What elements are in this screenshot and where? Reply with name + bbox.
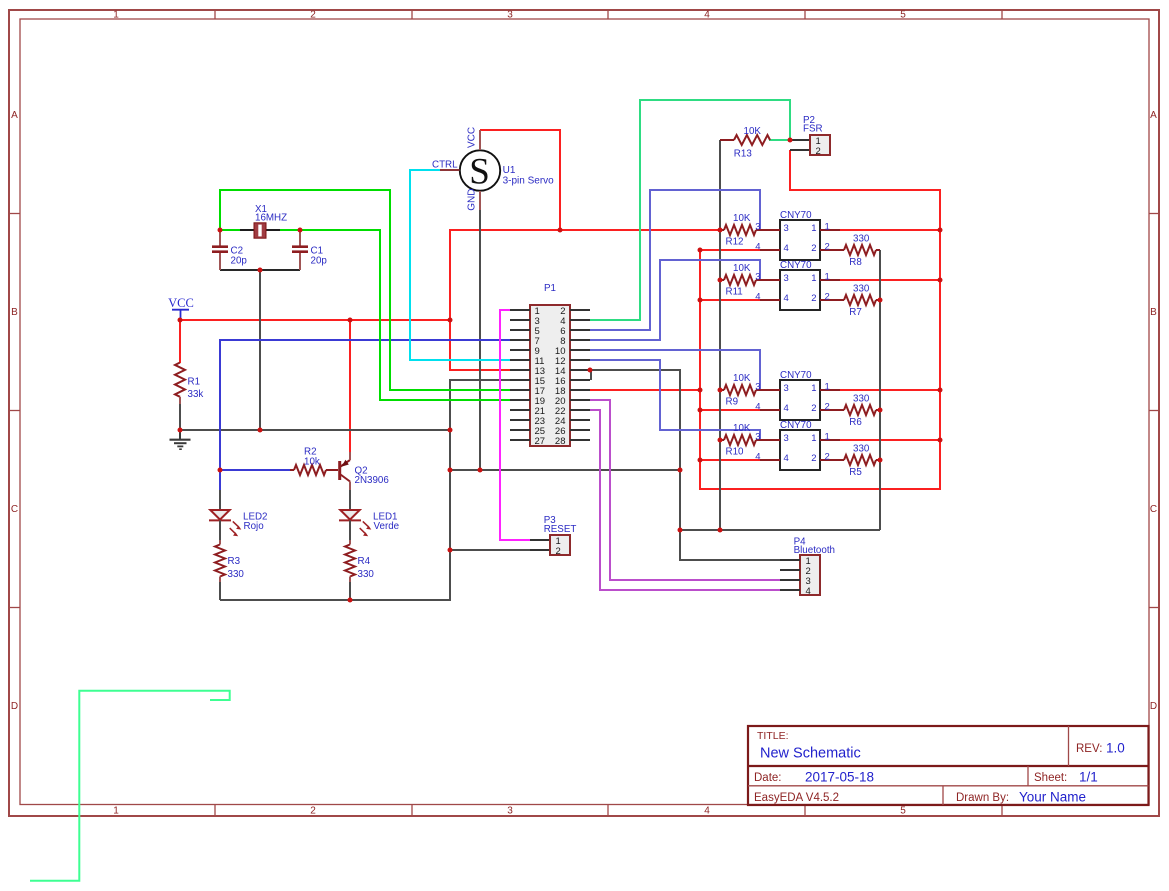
svg-text:1: 1 <box>811 433 816 444</box>
wire P1 pin12 blue to CNY70-4 pin3 <box>590 360 760 440</box>
svg-text:3: 3 <box>784 273 789 284</box>
svg-text:4: 4 <box>784 453 789 464</box>
svg-text:10K: 10K <box>733 213 751 224</box>
wire x=720 sensor common <box>719 140 721 530</box>
capacitor C1 <box>292 231 327 270</box>
svg-text:3: 3 <box>755 432 760 443</box>
svg-text:330: 330 <box>853 394 870 405</box>
svg-text:2: 2 <box>310 806 316 817</box>
wire crystal caps midpoint to ground rail <box>220 269 300 271</box>
capacitor C2 <box>212 231 247 270</box>
wire spring-green P1 pin4 to P2/FSR <box>590 100 790 320</box>
resistor R9 <box>720 373 760 408</box>
ground symbol <box>170 430 191 449</box>
svg-text:2: 2 <box>811 403 816 414</box>
connector P1 <box>510 283 590 447</box>
svg-text:3: 3 <box>507 10 513 21</box>
svg-text:P1: P1 <box>544 283 556 294</box>
wire y=530 link <box>680 529 880 531</box>
wire P1 pin10 blue to CNY70-3 pin3 <box>590 350 760 390</box>
resistor R13 <box>720 126 770 159</box>
wire green crystal right to P1 pin19 <box>300 230 510 400</box>
wire green crystal left node stub <box>220 229 240 231</box>
wire servo VCC to rail <box>480 130 560 230</box>
svg-text:3: 3 <box>755 222 760 233</box>
svg-text:3: 3 <box>507 806 513 817</box>
svg-text:2: 2 <box>811 293 816 304</box>
wire P1 pin15 / x=450 vertical / LED bottom rail <box>220 380 510 600</box>
svg-text:A: A <box>1150 110 1157 121</box>
svg-text:CNY70: CNY70 <box>780 210 812 221</box>
svg-text:1.0: 1.0 <box>1106 741 1125 756</box>
svg-text:B: B <box>11 307 18 318</box>
svg-text:Verde: Verde <box>374 521 400 532</box>
wire CNY70-2 pin4 <box>700 299 760 301</box>
wire green crystal right node stub <box>280 229 300 231</box>
wire ground rail y=430 <box>180 429 450 431</box>
svg-text:Date:: Date: <box>754 772 782 784</box>
resistor R1 <box>175 320 203 430</box>
svg-text:4: 4 <box>704 10 710 21</box>
svg-text:5: 5 <box>900 806 906 817</box>
svg-text:CTRL: CTRL <box>432 159 458 170</box>
op-amp/servo symbol U1 <box>432 127 554 211</box>
wire spring-green R13 right lead <box>769 139 790 141</box>
svg-text:2: 2 <box>811 243 816 254</box>
svg-text:Bluetooth: Bluetooth <box>794 545 835 556</box>
wire CNY70-2 pin1 to x=940 <box>840 279 940 281</box>
free green polyline bottom-left <box>30 691 230 881</box>
svg-text:FSR: FSR <box>803 124 823 135</box>
svg-text:2: 2 <box>816 146 821 157</box>
connector P4 Bluetooth <box>780 537 835 597</box>
wire CNY70-3 pin4 <box>700 409 760 411</box>
svg-text:Drawn By:: Drawn By: <box>956 792 1009 804</box>
svg-text:B: B <box>1150 307 1157 318</box>
svg-text:2: 2 <box>811 453 816 464</box>
wire P1 pin8 blue to CNY70-2 pin3 <box>590 260 760 340</box>
svg-text:1: 1 <box>825 222 830 233</box>
resistor R11 <box>720 263 760 298</box>
svg-text:D: D <box>11 701 18 712</box>
svg-text:CNY70: CNY70 <box>780 370 812 381</box>
svg-text:330: 330 <box>853 234 870 245</box>
svg-text:3: 3 <box>784 433 789 444</box>
resistor R4 <box>345 540 374 600</box>
svg-text:330: 330 <box>853 444 870 455</box>
svg-text:4: 4 <box>755 452 760 463</box>
wire blue to R2 <box>220 469 290 471</box>
wire magenta P1 pin1 to P3 pin1 <box>500 310 530 540</box>
svg-text:1: 1 <box>113 10 119 21</box>
svg-text:R1: R1 <box>188 377 201 388</box>
svg-text:10K: 10K <box>733 373 751 384</box>
svg-text:3: 3 <box>784 383 789 394</box>
resistor R2 <box>290 447 338 476</box>
IC CNY70 #2 <box>755 260 840 310</box>
svg-text:REV:: REV: <box>1076 743 1102 755</box>
svg-text:R13: R13 <box>734 148 753 159</box>
svg-text:CNY70: CNY70 <box>780 260 812 271</box>
svg-text:D: D <box>1150 701 1157 712</box>
svg-text:2: 2 <box>825 452 830 463</box>
svg-text:2: 2 <box>310 10 316 21</box>
svg-text:A: A <box>11 110 18 121</box>
svg-text:10K: 10K <box>733 423 751 434</box>
IC CNY70 #3 <box>755 370 840 420</box>
svg-text:1/1: 1/1 <box>1079 770 1098 785</box>
svg-text:330: 330 <box>358 569 375 580</box>
svg-text:10K: 10K <box>744 126 762 137</box>
wire red x=450: pin13 to crystal-row rail y=230 <box>450 230 720 370</box>
svg-text:Your Name: Your Name <box>1019 790 1086 805</box>
svg-text:330: 330 <box>228 569 245 580</box>
svg-text:2: 2 <box>825 242 830 253</box>
resistor R8 <box>840 234 880 268</box>
LED LED1 (Verde) <box>339 490 400 540</box>
resistor R5 <box>840 444 880 478</box>
wire servo GND down x=480 <box>479 210 481 470</box>
wire P1 pin18 red <box>590 389 700 391</box>
wire cyan servo CTRL to P1 pin11 <box>410 170 510 360</box>
resistor R6 <box>840 394 880 428</box>
svg-text:1: 1 <box>825 272 830 283</box>
svg-text:R7: R7 <box>849 307 862 318</box>
transistor Q2 <box>340 452 390 491</box>
svg-text:S: S <box>469 152 490 193</box>
resistor R3 <box>215 540 244 600</box>
svg-text:TITLE:: TITLE: <box>757 730 789 742</box>
svg-text:VCC: VCC <box>168 296 194 310</box>
connector P3 RESET <box>530 515 576 557</box>
title block <box>748 726 1149 805</box>
wire green crystal left to P1 pin17 <box>220 190 510 390</box>
svg-text:VCC: VCC <box>467 127 478 148</box>
wire x=880 resistor return <box>879 250 881 530</box>
wire P3 pin2 <box>450 549 530 551</box>
wire P1 pin6 blue to CNY70-1 pin3 <box>590 190 760 330</box>
svg-text:R9: R9 <box>726 397 739 408</box>
svg-text:1: 1 <box>811 273 816 284</box>
svg-text:2: 2 <box>825 292 830 303</box>
svg-text:Sheet:: Sheet: <box>1034 772 1067 784</box>
svg-text:R8: R8 <box>849 257 862 268</box>
svg-text:4: 4 <box>755 292 760 303</box>
svg-text:4: 4 <box>755 402 760 413</box>
svg-text:3: 3 <box>755 382 760 393</box>
wire violet P1 pin22 to P4 pin4 <box>590 410 780 590</box>
svg-text:3: 3 <box>784 223 789 234</box>
svg-text:GND: GND <box>466 189 477 211</box>
svg-text:33k: 33k <box>188 389 204 400</box>
svg-text:4: 4 <box>784 403 789 414</box>
svg-text:20p: 20p <box>311 255 328 266</box>
svg-text:10k: 10k <box>304 457 320 468</box>
svg-text:16MHZ: 16MHZ <box>255 213 287 224</box>
svg-text:28: 28 <box>555 436 566 447</box>
svg-text:3: 3 <box>755 272 760 283</box>
crystal X1 <box>240 204 287 238</box>
svg-text:3-pin Servo: 3-pin Servo <box>503 175 555 186</box>
svg-text:R11: R11 <box>726 287 743 298</box>
wire y=470 P3 net <box>450 469 680 471</box>
svg-text:EasyEDA V4.5.2: EasyEDA V4.5.2 <box>754 792 839 804</box>
svg-text:10K: 10K <box>733 263 751 274</box>
svg-text:R4: R4 <box>358 556 371 567</box>
svg-text:1: 1 <box>811 223 816 234</box>
svg-text:1: 1 <box>811 383 816 394</box>
wire CNY70-4 pin4 <box>700 459 760 461</box>
wire red loop P2.2 down right side x=940 and bottom y=489 up x=700 <box>700 150 940 489</box>
wire violet P1 pin20 to P4 pin3 <box>590 400 780 580</box>
svg-text:1: 1 <box>825 432 830 443</box>
wire VCC rail y=320 <box>180 319 450 321</box>
svg-text:2: 2 <box>825 402 830 413</box>
resistor R10 <box>720 423 760 458</box>
svg-text:5: 5 <box>900 10 906 21</box>
svg-text:4: 4 <box>755 242 760 253</box>
svg-text:New Schematic: New Schematic <box>760 746 861 762</box>
wire CNY70-3 pin1 to x=940 <box>840 389 940 391</box>
svg-text:330: 330 <box>853 284 870 295</box>
svg-text:2: 2 <box>556 546 561 557</box>
svg-text:4: 4 <box>784 293 789 304</box>
svg-text:Rojo: Rojo <box>244 521 265 532</box>
svg-text:1: 1 <box>825 382 830 393</box>
wire CNY70-1 pin4 <box>700 249 760 251</box>
svg-text:20p: 20p <box>231 255 248 266</box>
svg-text:4: 4 <box>784 243 789 254</box>
wire P1 pin16 jog <box>590 370 592 380</box>
svg-text:CNY70: CNY70 <box>780 420 812 431</box>
LED LED2 (Rojo) <box>209 490 268 540</box>
svg-text:2017-05-18: 2017-05-18 <box>805 770 874 785</box>
wire CNY70-4 pin1 to x=940 <box>840 439 940 441</box>
VCC symbol <box>168 296 194 320</box>
svg-text:1: 1 <box>113 806 119 817</box>
resistor R7 <box>840 284 880 318</box>
svg-text:R3: R3 <box>228 556 241 567</box>
IC CNY70 #1 <box>755 210 840 260</box>
svg-text:R5: R5 <box>849 467 862 478</box>
svg-text:RESET: RESET <box>544 524 577 535</box>
wire P1 pin7 blue to base circuit <box>220 340 510 490</box>
IC CNY70 #4 <box>755 420 840 470</box>
wire red vertical x=350 to Q2 emitter <box>349 320 351 452</box>
wire P1 pin14/16 to x=680 down to P4 pin1 <box>590 370 800 560</box>
resistor R12 <box>720 213 760 248</box>
svg-text:4: 4 <box>704 806 710 817</box>
wire CNY70-1 pin1 to x=940 <box>840 229 940 231</box>
svg-text:27: 27 <box>535 436 546 447</box>
svg-text:R12: R12 <box>726 237 744 248</box>
svg-text:C: C <box>1150 504 1157 515</box>
svg-text:4: 4 <box>806 586 811 597</box>
svg-text:R6: R6 <box>849 417 862 428</box>
svg-text:C: C <box>11 504 18 515</box>
svg-text:2N3906: 2N3906 <box>355 475 390 486</box>
svg-text:R10: R10 <box>726 447 745 458</box>
connector P2 FSR <box>790 115 830 157</box>
